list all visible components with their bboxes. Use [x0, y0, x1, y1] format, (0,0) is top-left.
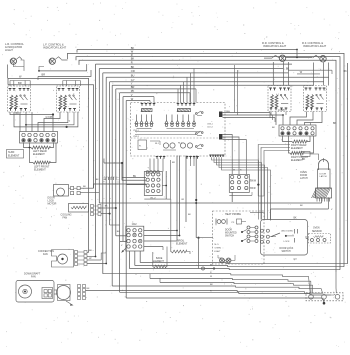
svg-text:LIGHT: LIGHT: [214, 251, 221, 253]
svg-text:V: V: [131, 93, 133, 97]
svg-text:FAN: FAN: [63, 217, 68, 220]
svg-text:BR: BR: [42, 72, 46, 76]
svg-text:HEAT PROBE: HEAT PROBE: [225, 213, 241, 216]
svg-text:GY: GY: [131, 78, 135, 82]
svg-text:LATCH: LATCH: [320, 175, 327, 178]
svg-text:N.O.: N.O.: [215, 244, 220, 246]
svg-text:CN2: CN2: [132, 223, 137, 226]
svg-text:GY/PK: GY/PK: [278, 109, 286, 112]
svg-text:PK: PK: [131, 89, 135, 93]
svg-text:INDICATOR LIGHT: INDICATOR LIGHT: [303, 44, 327, 48]
svg-text:BK: BK: [294, 217, 298, 219]
svg-text:BK: BK: [333, 122, 337, 125]
svg-text:W: W: [233, 170, 235, 172]
svg-text:ELEMENT: ELEMENT: [34, 169, 46, 172]
svg-text:BK: BK: [302, 158, 306, 161]
svg-text:DOOR LOCK: DOOR LOCK: [280, 248, 294, 250]
svg-text:BK: BK: [131, 46, 135, 50]
svg-text:CLK-3: CLK-3: [207, 127, 214, 129]
svg-text:FAN: FAN: [31, 276, 36, 279]
svg-text:DOOR: DOOR: [225, 230, 232, 232]
svg-text:ELEMENT: ELEMENT: [33, 153, 45, 156]
svg-text:CN3-3: CN3-3: [133, 136, 140, 138]
svg-text:SWITCH: SWITCH: [282, 251, 291, 253]
svg-text:OR: OR: [131, 69, 135, 73]
svg-text:BK: BK: [131, 65, 135, 69]
svg-text:GY: GY: [294, 259, 298, 261]
svg-text:R: R: [131, 60, 133, 64]
svg-text:LATCH: LATCH: [300, 177, 308, 180]
svg-text:SENSOR: SENSOR: [312, 231, 322, 233]
svg-text:INDICATOR LIGHT: INDICATOR LIGHT: [43, 46, 67, 50]
svg-text:OVEN: OVEN: [313, 228, 320, 230]
svg-text:W: W: [210, 276, 212, 278]
svg-text:ELEMENT: ELEMENT: [176, 243, 188, 246]
svg-text:LIGHT: LIGHT: [5, 48, 13, 52]
svg-text:BR: BR: [18, 81, 22, 85]
svg-text:INDICATOR LIGHT: INDICATOR LIGHT: [263, 44, 287, 48]
svg-text:BK: BK: [286, 67, 290, 70]
svg-text:W: W: [104, 179, 106, 181]
svg-text:BK/R: BK/R: [250, 188, 256, 190]
svg-text:MOTOR: MOTOR: [48, 203, 57, 206]
svg-text:UNLOCKED: UNLOCKED: [281, 231, 294, 233]
svg-text:LOCK: LOCK: [284, 241, 290, 243]
svg-text:SWITCH: SWITCH: [225, 236, 234, 238]
svg-text:BK/W: BK/W: [250, 181, 257, 183]
svg-text:BU: BU: [133, 176, 137, 178]
svg-text:BK: BK: [344, 70, 348, 73]
svg-text:OVEN: OVEN: [215, 248, 222, 250]
svg-text:BR: BR: [131, 85, 135, 89]
svg-text:CN3-1: CN3-1: [207, 124, 214, 126]
svg-text:FAN: FAN: [226, 110, 230, 113]
svg-text:FAN: FAN: [43, 253, 48, 256]
svg-text:GY/PK: GY/PK: [46, 116, 54, 119]
svg-text:BU: BU: [131, 74, 135, 78]
svg-text:ELEMENT: ELEMENT: [291, 147, 303, 150]
svg-text:OR: OR: [181, 199, 185, 201]
svg-text:BR: BR: [16, 112, 20, 115]
svg-text:Y: Y: [131, 82, 133, 86]
svg-text:BR: BR: [172, 162, 175, 164]
svg-text:MOUNTED: MOUNTED: [225, 233, 237, 235]
svg-text:ELEMENT: ELEMENT: [8, 155, 20, 158]
svg-text:CN3-1: CN3-1: [133, 130, 140, 132]
